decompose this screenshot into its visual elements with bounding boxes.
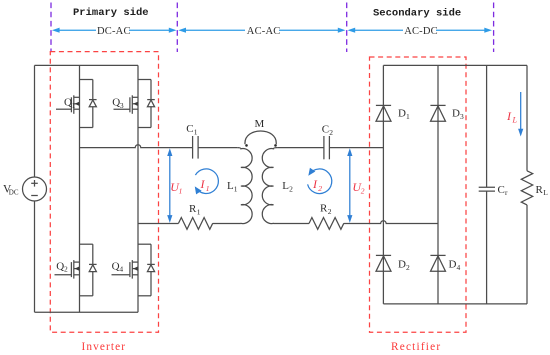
svg-text:2: 2 bbox=[289, 185, 293, 194]
svg-text:1: 1 bbox=[206, 184, 210, 193]
rectifier dashed box bbox=[370, 57, 467, 332]
current loop I1 bbox=[195, 169, 218, 194]
svg-text:D: D bbox=[398, 108, 406, 120]
svg-text:C: C bbox=[498, 184, 505, 196]
svg-text:3: 3 bbox=[120, 101, 124, 110]
svg-text:Q: Q bbox=[112, 260, 120, 272]
label VDC bbox=[3, 183, 19, 196]
wire R1 to L1 bbox=[213, 223, 241, 225]
diode D4 bbox=[430, 255, 445, 271]
current arrow IL bbox=[518, 92, 523, 137]
rectifier bottom bus bbox=[383, 303, 527, 305]
svg-text:r: r bbox=[505, 188, 508, 197]
label L1 bbox=[227, 180, 238, 194]
svg-text:Rectifier: Rectifier bbox=[391, 341, 441, 353]
label U1 bbox=[170, 180, 182, 196]
rectifier leg 2 bbox=[437, 65, 439, 304]
inductor L2 bbox=[262, 148, 277, 224]
wire L2 to C2 bbox=[277, 147, 324, 149]
svg-text:D: D bbox=[398, 259, 406, 271]
divider line mid-left bbox=[176, 3, 178, 53]
capacitor Cr leg bbox=[479, 65, 495, 304]
rectifier leg 1 bbox=[382, 65, 384, 304]
svg-text:Inverter: Inverter bbox=[82, 341, 127, 353]
svg-text:L: L bbox=[512, 116, 518, 125]
wire bridge output top with hop bbox=[80, 145, 193, 148]
label I2 bbox=[312, 177, 322, 193]
svg-text:2: 2 bbox=[329, 128, 333, 137]
voltage arrow U1 bbox=[167, 148, 172, 223]
transistor Q1 bbox=[56, 95, 80, 114]
diode D1 bbox=[376, 105, 391, 121]
voltage arrow U2 bbox=[347, 148, 352, 223]
divider line mid-right bbox=[346, 3, 348, 53]
wire bridge leg 1 bbox=[79, 65, 81, 312]
wire bottom bus bbox=[35, 311, 139, 313]
svg-text:1: 1 bbox=[406, 112, 410, 121]
svg-text:AC-DC: AC-DC bbox=[404, 26, 438, 37]
label U2 bbox=[352, 180, 364, 196]
dimension arrow DC-AC bbox=[52, 28, 177, 33]
wire bridge leg 2 bbox=[137, 65, 139, 312]
diode D2 bbox=[376, 255, 391, 271]
label D2 bbox=[398, 259, 410, 273]
svg-text:C: C bbox=[322, 124, 329, 136]
label Cr bbox=[498, 184, 509, 197]
label D1 bbox=[398, 108, 410, 122]
svg-text:1: 1 bbox=[179, 186, 183, 195]
rectifier top bus bbox=[383, 64, 527, 66]
svg-text:1: 1 bbox=[197, 208, 201, 217]
label L2 bbox=[282, 180, 293, 194]
body diode of Q3 bbox=[138, 80, 155, 128]
body diode of Q2 bbox=[80, 244, 97, 296]
svg-text:C: C bbox=[186, 123, 193, 135]
svg-text:2: 2 bbox=[318, 184, 322, 193]
svg-text:Primary side: Primary side bbox=[73, 7, 149, 19]
svg-text:Q: Q bbox=[56, 260, 64, 272]
body diode of Q1 bbox=[80, 80, 97, 128]
polarity dot L1 bbox=[245, 144, 248, 147]
svg-text:1: 1 bbox=[194, 127, 198, 136]
label D3 bbox=[452, 108, 464, 122]
resistor R1 bbox=[178, 218, 212, 230]
capacitor C1 bbox=[193, 136, 199, 159]
label C1 bbox=[186, 123, 198, 137]
svg-text:2: 2 bbox=[406, 263, 410, 272]
capacitor C2 bbox=[324, 136, 330, 159]
dimension arrow AC-AC bbox=[178, 28, 345, 33]
svg-text:I: I bbox=[506, 109, 512, 123]
svg-text:1: 1 bbox=[72, 101, 76, 110]
svg-text:R: R bbox=[536, 184, 544, 196]
svg-text:L: L bbox=[543, 188, 548, 197]
wire leg2 tap to R1 bbox=[138, 223, 178, 225]
wire C1 to L1 bbox=[198, 147, 237, 149]
label Q2 bbox=[56, 260, 68, 273]
svg-text:2: 2 bbox=[64, 265, 68, 274]
inductor L1 bbox=[237, 148, 252, 224]
diode D3 bbox=[430, 105, 445, 121]
svg-text:1: 1 bbox=[234, 185, 238, 194]
svg-text:R: R bbox=[189, 203, 197, 215]
divider line left bbox=[50, 3, 52, 53]
svg-text:3: 3 bbox=[460, 112, 464, 121]
svg-text:4: 4 bbox=[119, 265, 123, 274]
body diode of Q4 bbox=[138, 244, 155, 296]
voltage source VDC bbox=[23, 177, 47, 201]
svg-text:DC-AC: DC-AC bbox=[97, 26, 131, 37]
svg-text:I: I bbox=[200, 177, 206, 191]
wire R2 to rectifier with hop bbox=[344, 221, 438, 224]
mutual coupling arc M bbox=[245, 131, 276, 144]
svg-text:D: D bbox=[452, 108, 460, 120]
label D4 bbox=[449, 259, 461, 273]
svg-text:AC-AC: AC-AC bbox=[247, 26, 281, 37]
label Q3 bbox=[112, 96, 124, 110]
label I1 bbox=[200, 177, 210, 193]
svg-text:2: 2 bbox=[361, 186, 365, 195]
svg-text:Secondary side: Secondary side bbox=[373, 8, 461, 20]
polarity dot L2 bbox=[274, 144, 277, 147]
label R1 bbox=[189, 203, 201, 217]
current loop I2 bbox=[308, 169, 332, 194]
label Q4 bbox=[112, 260, 124, 273]
label C2 bbox=[322, 124, 334, 138]
transistor Q2 bbox=[55, 260, 80, 279]
label Q1 bbox=[64, 96, 76, 110]
label R2 bbox=[320, 203, 332, 217]
transistor Q4 bbox=[112, 260, 139, 279]
svg-text:DC: DC bbox=[9, 188, 19, 196]
wire L2 to R2 bbox=[274, 223, 310, 225]
divider line right bbox=[493, 3, 495, 53]
svg-text:R: R bbox=[320, 203, 328, 215]
svg-text:I: I bbox=[312, 177, 318, 191]
dimension arrow AC-DC bbox=[348, 28, 493, 33]
wire left rail bottom bbox=[34, 201, 36, 312]
resistor RL bbox=[521, 65, 532, 304]
wire C2 to rectifier bbox=[329, 147, 383, 149]
inverter dashed box bbox=[50, 52, 158, 333]
label RL bbox=[536, 184, 549, 197]
label IL bbox=[506, 109, 518, 125]
wire left rail top bbox=[34, 65, 36, 177]
svg-text:4: 4 bbox=[457, 263, 461, 272]
resistor R2 bbox=[309, 218, 344, 230]
wire top bus bbox=[35, 64, 139, 66]
svg-text:2: 2 bbox=[328, 207, 332, 216]
svg-text:D: D bbox=[449, 259, 457, 271]
transistor Q3 bbox=[114, 95, 139, 114]
svg-text:M: M bbox=[255, 118, 265, 130]
